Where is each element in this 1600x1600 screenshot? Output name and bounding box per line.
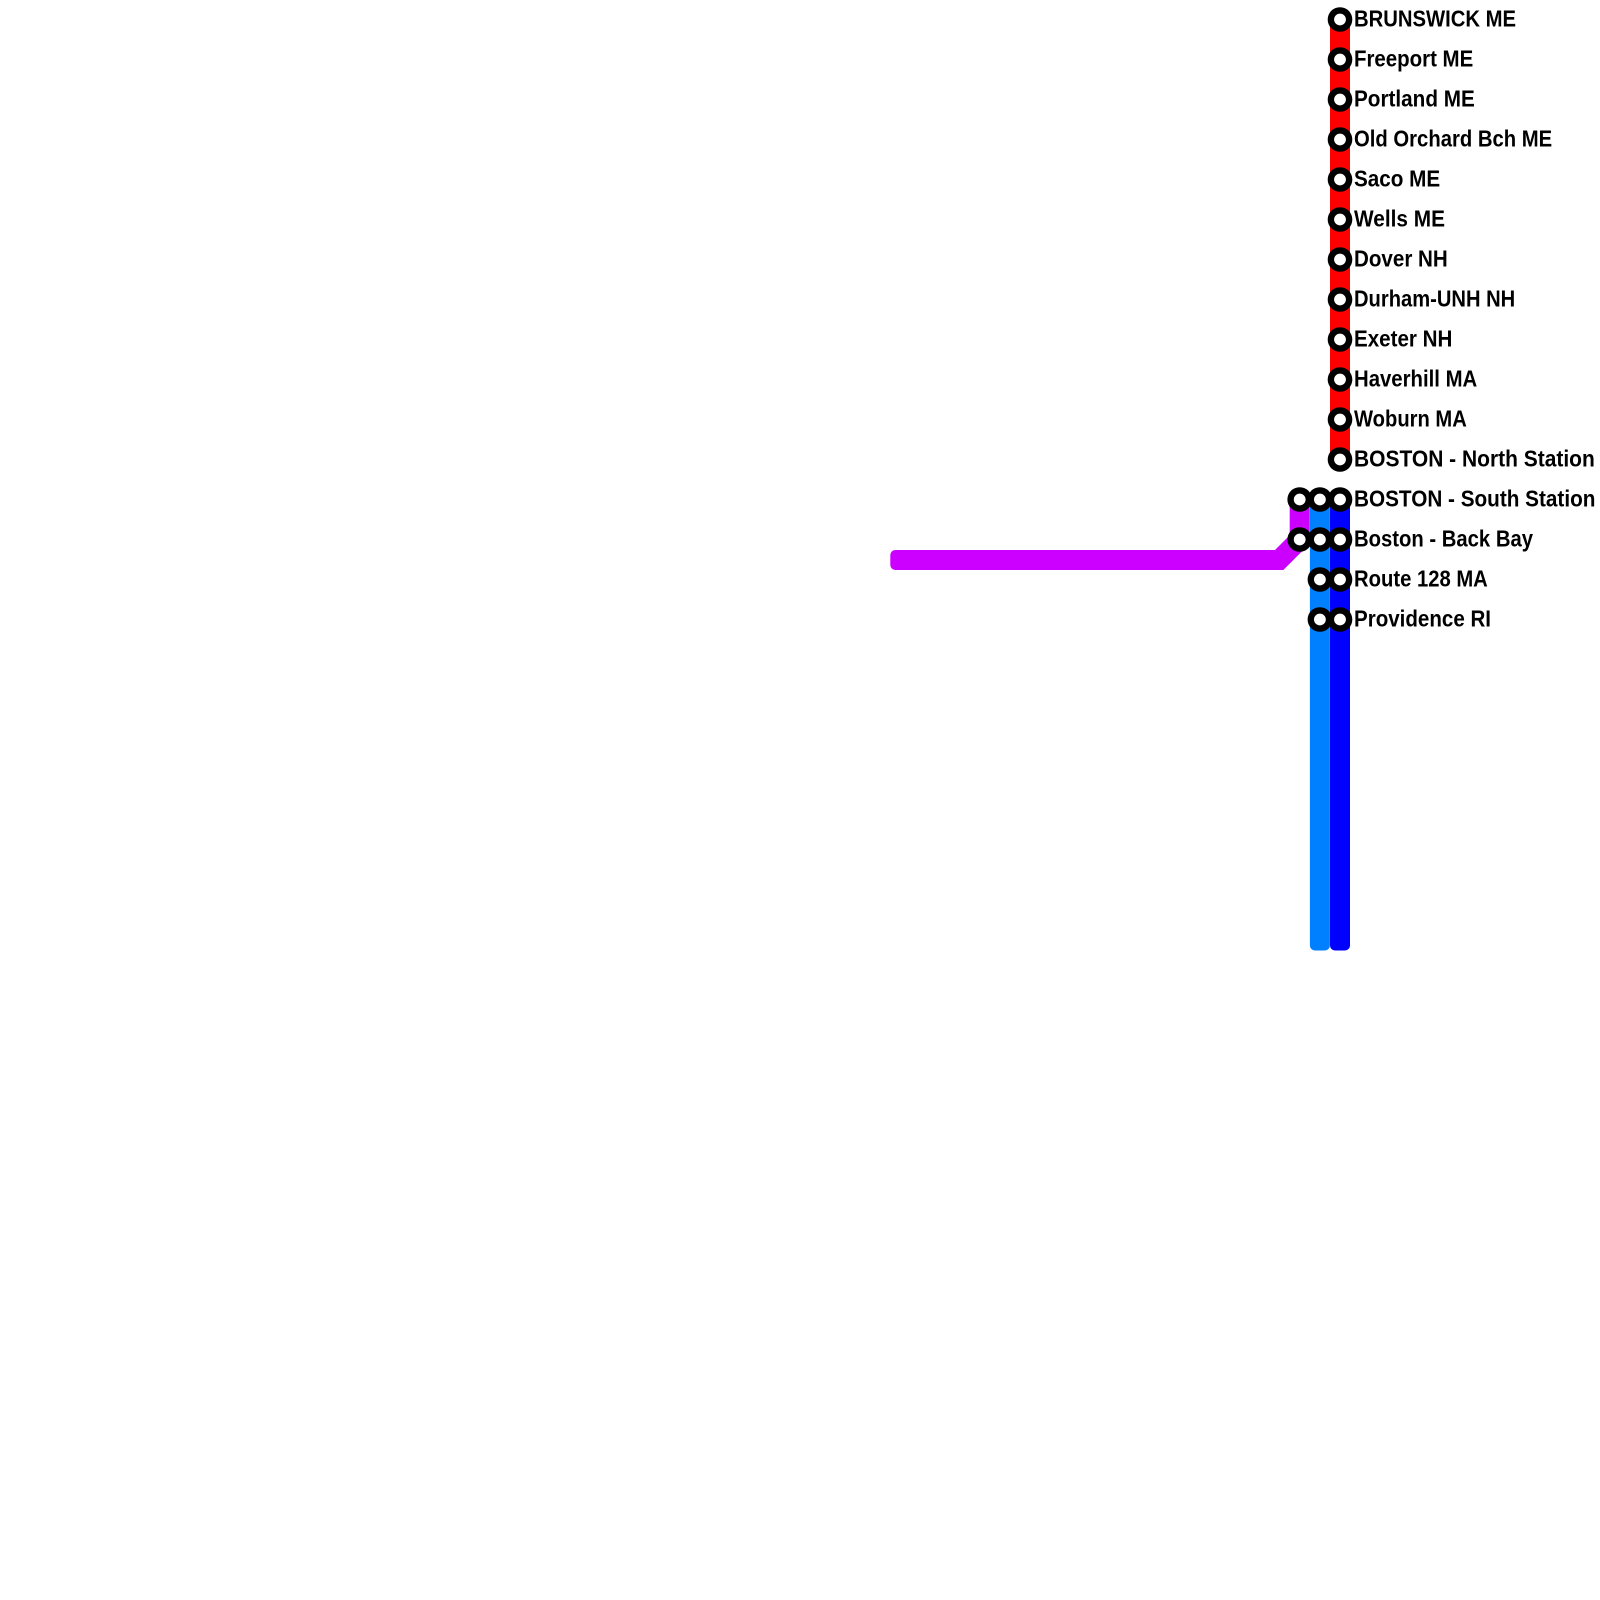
svg-text:Route 128 MA: Route 128 MA xyxy=(1354,565,1488,591)
svg-text:Wells ME: Wells ME xyxy=(1354,205,1445,231)
svg-text:Freeport ME: Freeport ME xyxy=(1354,45,1473,71)
svg-text:BOSTON - South Station: BOSTON - South Station xyxy=(1354,485,1595,511)
svg-text:Portland ME: Portland ME xyxy=(1354,85,1475,111)
svg-text:Boston - Back Bay: Boston - Back Bay xyxy=(1354,525,1533,551)
svg-text:Durham-UNH NH: Durham-UNH NH xyxy=(1354,285,1515,311)
svg-text:Dover NH: Dover NH xyxy=(1354,245,1448,271)
svg-text:Haverhill MA: Haverhill MA xyxy=(1354,365,1477,391)
svg-text:Old Orchard Bch ME: Old Orchard Bch ME xyxy=(1354,125,1552,151)
svg-text:Providence RI: Providence RI xyxy=(1354,605,1491,631)
svg-text:BOSTON - North Station: BOSTON - North Station xyxy=(1354,445,1595,471)
svg-text:Exeter NH: Exeter NH xyxy=(1354,325,1452,351)
svg-text:Woburn MA: Woburn MA xyxy=(1354,405,1467,431)
svg-text:BRUNSWICK ME: BRUNSWICK ME xyxy=(1354,5,1516,31)
svg-text:Saco ME: Saco ME xyxy=(1354,165,1440,191)
